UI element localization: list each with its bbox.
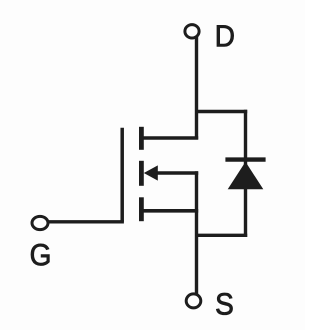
transistor Q1 gate bar	[120, 128, 124, 222]
wire source vertical (body junction to S terminal)	[195, 171, 198, 294]
label G	[31, 244, 49, 266]
wire source horizontal to channel	[139, 209, 198, 213]
transistor Q1 channel bar drain segment	[139, 127, 144, 150]
wire diode branch top	[197, 110, 248, 113]
wire gate horizontal	[48, 220, 124, 223]
transistor Q1 channel bar source segment	[139, 197, 144, 221]
terminal D circle	[185, 25, 199, 38]
transistor Q1 channel bar body segment	[139, 161, 144, 186]
wire diode branch vertical	[244, 110, 247, 237]
terminal G circle	[32, 216, 48, 229]
arrow body (N-channel, points toward gate)	[144, 165, 158, 180]
label S	[216, 293, 232, 315]
terminal S circle	[186, 294, 201, 308]
wire body horizontal	[155, 171, 198, 174]
diode D1 anode triangle	[228, 162, 264, 190]
diode D1 cathode bar	[225, 157, 265, 161]
wire drain horizontal to channel	[139, 136, 198, 140]
wire drain vertical	[195, 37, 198, 140]
label D	[217, 25, 234, 46]
wire diode branch bottom	[197, 234, 248, 237]
